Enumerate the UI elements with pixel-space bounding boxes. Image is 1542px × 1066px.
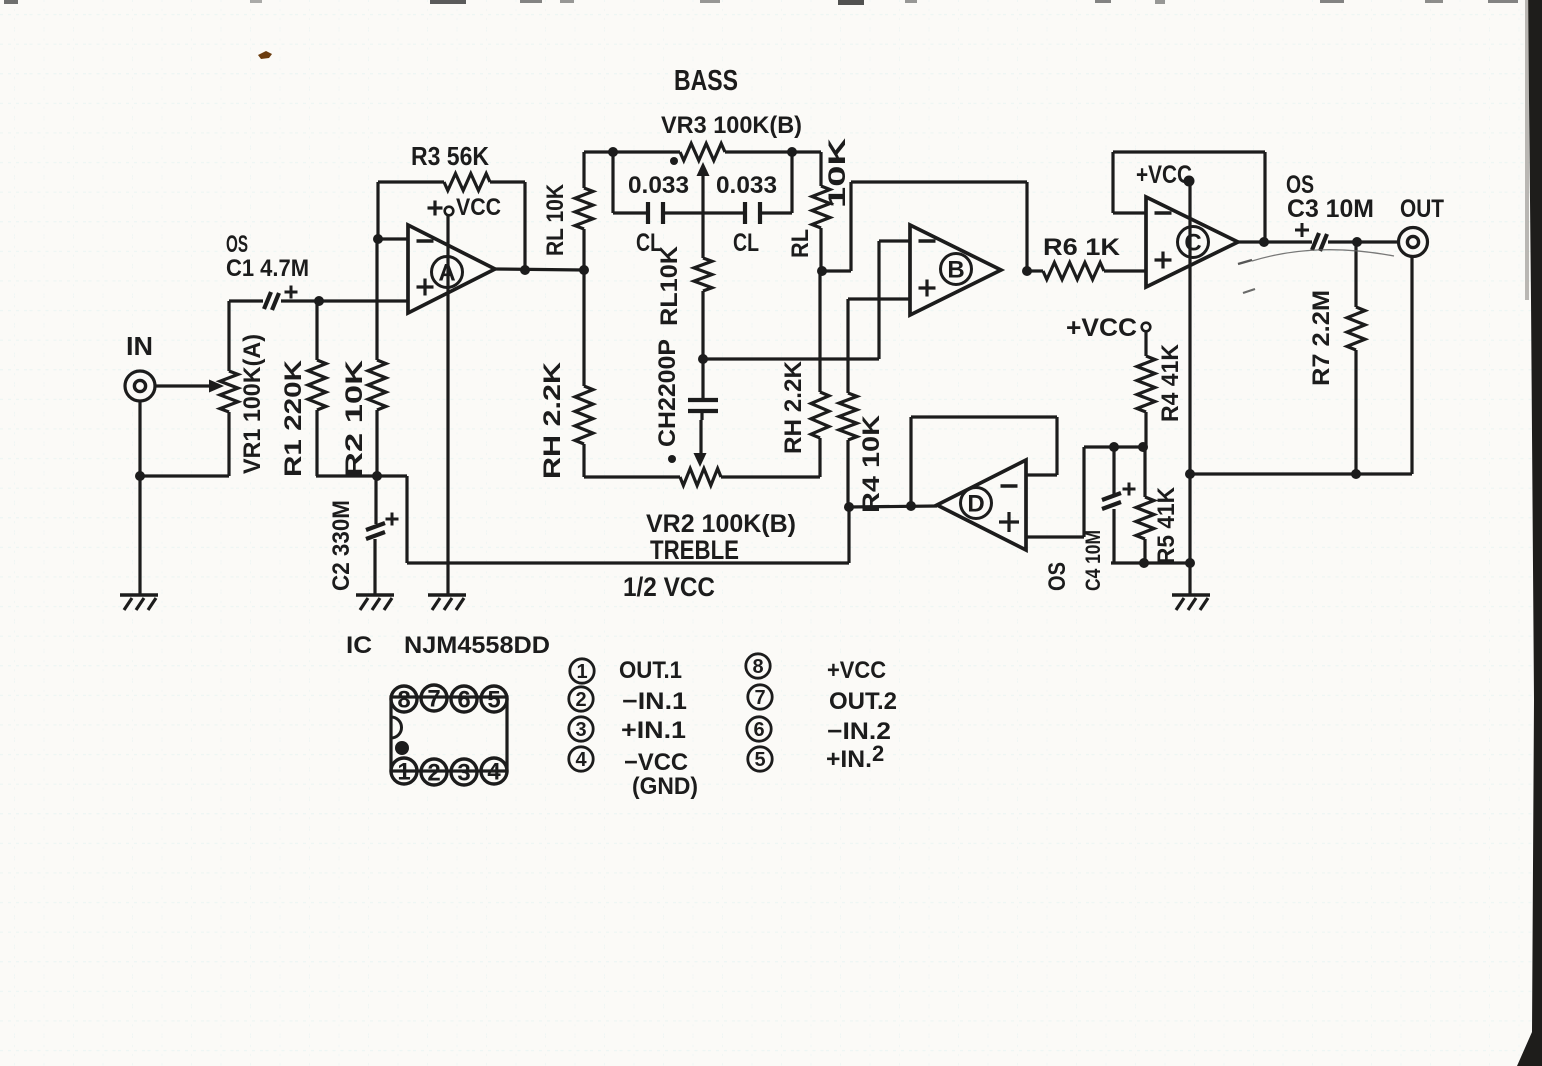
svg-text:+IN.1: +IN.1 bbox=[621, 717, 686, 744]
IC pin-1 marker dot bbox=[395, 741, 409, 755]
label R7 2.2M bbox=[1308, 290, 1335, 386]
wire bass mid rail to op-amp B bbox=[703, 357, 879, 360]
node VR3 left terminal bbox=[608, 147, 618, 157]
svg-text:OUT: OUT bbox=[1400, 195, 1444, 223]
label OUT bbox=[1400, 195, 1444, 223]
node C1/R1 junction bbox=[314, 296, 324, 306]
node op-amp B output bbox=[1022, 266, 1032, 276]
svg-text:3: 3 bbox=[575, 719, 586, 741]
label RH 2.2K right bbox=[780, 360, 807, 454]
wire op-amp D +input bbox=[1026, 447, 1084, 537]
IC pin 3 bbox=[451, 759, 477, 787]
IC notch bbox=[391, 717, 402, 738]
capacitor CL 0.033 left bbox=[613, 202, 703, 224]
scanner edge band right bbox=[1517, 0, 1542, 1066]
node output/RL junction bbox=[579, 265, 589, 275]
label R4 41K bbox=[1157, 343, 1184, 422]
op-amp D bbox=[937, 460, 1026, 550]
IC pin 2 bbox=[421, 759, 447, 787]
node rail/VCC-line junction bbox=[1185, 469, 1195, 479]
svg-text:CH2200P: CH2200P bbox=[654, 339, 681, 447]
svg-text:5: 5 bbox=[487, 687, 500, 714]
wire C4/R5 bottom rail bbox=[1111, 561, 1192, 564]
svg-text:R4 41K: R4 41K bbox=[1157, 343, 1184, 422]
svg-text:C: C bbox=[1184, 230, 1201, 257]
node R5 bottom junction bbox=[1139, 558, 1149, 568]
wire IN to VR1 wiper with arrow bbox=[156, 380, 224, 393]
pin label OUT.2 bbox=[829, 688, 897, 715]
svg-text:10K: 10K bbox=[824, 137, 851, 208]
wire VR3 right drop bbox=[790, 152, 793, 213]
node OUT jack bbox=[1399, 228, 1428, 257]
wire IN jack ground stem bbox=[138, 401, 141, 594]
wire op-amp C feedback box bbox=[1113, 152, 1265, 242]
wire op-amp B feedback loop bbox=[851, 182, 1027, 271]
pin label +IN.2 bbox=[826, 741, 884, 773]
svg-text:2: 2 bbox=[872, 741, 884, 766]
svg-text:R7 2.2M: R7 2.2M bbox=[1308, 290, 1335, 386]
svg-text:NJM4558DD: NJM4558DD bbox=[404, 632, 550, 659]
capacitor C3 10M bbox=[1312, 233, 1327, 251]
svg-text:R1 220K: R1 220K bbox=[280, 359, 307, 477]
label R1 220K bbox=[280, 359, 307, 477]
svg-text:3: 3 bbox=[457, 760, 470, 787]
resistor RL 10K left bbox=[575, 152, 593, 270]
resistor R6 1K bbox=[1027, 263, 1146, 280]
svg-text:RH 2.2K: RH 2.2K bbox=[780, 360, 807, 454]
wire VCC supply line down to ground bbox=[446, 215, 449, 595]
svg-text:7: 7 bbox=[427, 686, 440, 713]
wire output bottom rail bbox=[1190, 472, 1412, 475]
wire half-VCC rail bbox=[407, 476, 849, 563]
svg-text:0.033: 0.033 bbox=[716, 172, 777, 199]
label R3 56K bbox=[411, 141, 489, 171]
wiper arrow of VR3 bbox=[697, 162, 710, 213]
svg-text:+VCC: +VCC bbox=[1136, 161, 1192, 189]
wire half-VCC rail riser to D output bbox=[849, 506, 937, 563]
svg-text:(GND): (GND) bbox=[632, 773, 698, 800]
resistor 10K right bbox=[812, 152, 830, 271]
svg-text:OUT.1: OUT.1 bbox=[619, 657, 682, 684]
wire bass top rail bbox=[584, 150, 821, 153]
svg-text:OUT.2: OUT.2 bbox=[829, 688, 897, 715]
node VR3 right terminal bbox=[787, 147, 797, 157]
svg-text:5: 5 bbox=[754, 749, 765, 771]
stray ink dot above VR2 wiper bbox=[668, 455, 676, 463]
node rail/VCC-line bottom junction bbox=[1185, 558, 1195, 568]
label C1 4.7M bbox=[226, 255, 309, 282]
node R3/R2/-input junction bbox=[373, 234, 383, 244]
stray ink dot above wiper bbox=[670, 157, 678, 165]
node VCC pin blob C bbox=[1184, 176, 1195, 187]
pin label -IN.2 bbox=[827, 718, 891, 745]
svg-text:6: 6 bbox=[457, 687, 470, 714]
wire VR3 left drop bbox=[611, 152, 614, 213]
op-amp B bbox=[910, 225, 1001, 315]
IC pin 6 bbox=[451, 686, 477, 714]
label C3 10M bbox=[1287, 195, 1374, 223]
wire OUT jack stem bbox=[1410, 256, 1413, 474]
IC pin 7 bbox=[421, 685, 447, 713]
svg-text:2: 2 bbox=[427, 760, 440, 787]
label CL left bbox=[636, 229, 662, 257]
label IN bbox=[126, 331, 153, 361]
pin list 1 bbox=[570, 659, 594, 683]
wire VCC pin line down to ground bbox=[1188, 181, 1191, 595]
svg-text:4: 4 bbox=[575, 749, 587, 771]
svg-text:VCC: VCC bbox=[456, 194, 501, 221]
svg-text:8: 8 bbox=[397, 687, 410, 714]
label +VCC (R4 41K) bbox=[1066, 314, 1137, 342]
resistor R5 41K bbox=[1136, 447, 1154, 563]
label R4 10K bbox=[858, 414, 885, 513]
node C3/R7 junction bbox=[1352, 237, 1362, 247]
svg-text:CL: CL bbox=[733, 229, 759, 257]
svg-text:VR1 100K(A): VR1 100K(A) bbox=[239, 334, 266, 474]
svg-text:+VCC: +VCC bbox=[1066, 314, 1137, 342]
wire bottom rail R1-R2 bbox=[316, 474, 407, 477]
capacitor CL 0.033 right bbox=[703, 202, 792, 224]
pin label (GND) bbox=[632, 773, 698, 800]
ground G4 bbox=[1172, 595, 1210, 610]
wire op-amp B +input / R4 10K bbox=[848, 299, 910, 393]
svg-text:0.033: 0.033 bbox=[628, 172, 689, 199]
label RL 10K left bbox=[542, 183, 569, 256]
resistor R7 2.2M bbox=[1347, 242, 1365, 474]
pin label +IN.1 bbox=[621, 717, 686, 744]
svg-text:1/2 VCC: 1/2 VCC bbox=[623, 572, 715, 602]
svg-text:8: 8 bbox=[752, 656, 763, 678]
svg-text:1: 1 bbox=[397, 759, 410, 786]
capacitor C4 10M bbox=[1102, 447, 1121, 563]
node R4 bottom junction bbox=[844, 502, 854, 512]
svg-text:−VCC: −VCC bbox=[624, 749, 688, 776]
op-amp C bbox=[1146, 197, 1238, 287]
IC NJM4558DD package outline bbox=[391, 697, 507, 771]
label C4 10M bbox=[1082, 530, 1105, 591]
wiper arrow of VR2 bbox=[694, 420, 707, 467]
wire op-amp C output bbox=[1238, 240, 1312, 243]
svg-text:IC: IC bbox=[346, 632, 372, 659]
label 0.033 left bbox=[628, 172, 689, 199]
label TREBLE bbox=[650, 535, 739, 565]
resistor R4 10K bbox=[839, 393, 857, 507]
ground G1 bbox=[120, 595, 158, 610]
IC pin 4 bbox=[481, 758, 507, 786]
svg-text:IN: IN bbox=[126, 331, 153, 361]
svg-text:4: 4 bbox=[487, 759, 501, 786]
IC pin 8 bbox=[391, 686, 417, 714]
node junction jack/VR1 bbox=[135, 471, 145, 481]
svg-text:C2 330M: C2 330M bbox=[328, 500, 355, 591]
potentiometer VR2 100K(B) bbox=[584, 469, 818, 486]
svg-text:TREBLE: TREBLE bbox=[650, 535, 739, 565]
svg-text:OS: OS bbox=[226, 231, 248, 258]
polarity + of C2 bbox=[386, 513, 399, 526]
label R2 10K bbox=[341, 359, 368, 477]
resistor RH 2.2K left bbox=[575, 270, 593, 477]
label 10K right bbox=[824, 137, 851, 208]
wire op-amp D feedback loop bbox=[911, 417, 1057, 506]
polarity + of C1 bbox=[285, 286, 298, 299]
svg-text:RH 2.2K: RH 2.2K bbox=[539, 361, 566, 479]
wire op-amp A output bbox=[495, 269, 584, 270]
wire op-amp B -input bbox=[879, 241, 910, 359]
pin list 2 bbox=[569, 687, 593, 711]
svg-text:RL10K: RL10K bbox=[656, 245, 683, 326]
wire node to feedback leg bbox=[822, 269, 851, 272]
capacitor C2 330M bbox=[366, 476, 385, 595]
svg-text:6: 6 bbox=[753, 719, 764, 741]
label VR1 100K(A) bbox=[239, 334, 266, 474]
svg-text:C3 10M: C3 10M bbox=[1287, 195, 1374, 223]
resistor RH 2.2K right bbox=[811, 271, 829, 477]
wire C4/R5 top rail bbox=[1084, 445, 1146, 448]
capacitor C1 4.7M bbox=[229, 292, 319, 310]
svg-text:−IN.1: −IN.1 bbox=[622, 688, 687, 715]
label C2 330M bbox=[328, 500, 355, 591]
resistor R2 10K bbox=[368, 239, 386, 476]
ink speck top-left bbox=[258, 51, 272, 59]
capacitor CH 2200P bbox=[688, 359, 718, 420]
svg-text:C4 10M: C4 10M bbox=[1082, 530, 1105, 591]
IC pin 1 bbox=[391, 758, 417, 786]
node IN jack bbox=[125, 371, 155, 401]
svg-text:7: 7 bbox=[754, 687, 765, 709]
node D output junction bbox=[906, 501, 916, 511]
pin list 4 bbox=[569, 747, 593, 771]
label CH 2200P bbox=[654, 339, 681, 447]
scanner dashes top edge bbox=[4, 0, 1518, 5]
svg-text:RL: RL bbox=[787, 229, 814, 258]
node bass center junction bbox=[698, 354, 708, 364]
label RH 2.2K left bbox=[539, 361, 566, 479]
svg-text:VR3 100K(B): VR3 100K(B) bbox=[661, 112, 802, 139]
label 1/2 VCC bbox=[623, 572, 715, 602]
label OS (C1) bbox=[226, 231, 248, 258]
svg-text:1: 1 bbox=[576, 661, 587, 683]
potentiometer VR1 100K(A) bbox=[220, 301, 238, 476]
pen scratch near output bbox=[1238, 250, 1394, 293]
node C4 top junction bbox=[1109, 442, 1119, 452]
resistor RL 10K center bbox=[694, 213, 712, 359]
label 0.033 right bbox=[716, 172, 777, 199]
svg-text:R2 10K: R2 10K bbox=[341, 359, 368, 477]
ground G3 bbox=[428, 595, 466, 610]
svg-text:OS: OS bbox=[1044, 562, 1071, 591]
node R3/output junction bbox=[520, 265, 530, 275]
svg-text:R6 1K: R6 1K bbox=[1043, 234, 1121, 261]
plus of +VCC (A) bbox=[428, 201, 443, 216]
label IC NJM4558DD bbox=[346, 632, 550, 659]
label R6 1K bbox=[1043, 234, 1121, 261]
resistor R1 220K bbox=[308, 301, 326, 476]
label CL right bbox=[733, 229, 759, 257]
svg-text:BASS: BASS bbox=[674, 65, 738, 97]
svg-text:2: 2 bbox=[575, 689, 586, 711]
svg-text:R4 10K: R4 10K bbox=[858, 414, 885, 513]
pin label +VCC (8) bbox=[827, 657, 886, 684]
svg-text:D: D bbox=[967, 491, 984, 518]
IC pin 5 bbox=[481, 686, 507, 714]
svg-text:R3 56K: R3 56K bbox=[411, 141, 489, 171]
pin label -IN.1 bbox=[622, 688, 687, 715]
pin list 6 bbox=[747, 717, 771, 741]
pin label -VCC bbox=[624, 749, 688, 776]
polarity + of C3 bbox=[1295, 223, 1309, 237]
pin list 8 bbox=[746, 654, 770, 678]
svg-text:B: B bbox=[947, 257, 964, 284]
wire C3 to OUT jack bbox=[1328, 240, 1398, 243]
wire R3 right leg to output bbox=[523, 182, 526, 270]
wire C1 to op-amp A +input bbox=[319, 299, 408, 302]
svg-text:+IN.: +IN. bbox=[826, 746, 872, 773]
pin list 3 bbox=[569, 717, 593, 741]
label R5 41K bbox=[1153, 486, 1180, 564]
pin list 7 bbox=[748, 685, 772, 709]
resistor R3 56K feedback bbox=[378, 174, 525, 191]
wire R3 left leg to -input bbox=[378, 182, 408, 239]
svg-text:VR2 100K(B): VR2 100K(B) bbox=[646, 510, 796, 538]
node R5 top junction bbox=[1138, 442, 1148, 452]
svg-text:RL 10K: RL 10K bbox=[542, 183, 569, 256]
resistor R4 41K bbox=[1137, 331, 1155, 447]
pin list 5 bbox=[748, 747, 772, 771]
label BASS bbox=[674, 65, 738, 97]
node VCC terminal R4 bbox=[1142, 323, 1151, 332]
ground G2 bbox=[356, 595, 394, 610]
label RL right bbox=[787, 229, 814, 258]
wire VR1 bottom to jack stem bbox=[140, 474, 229, 477]
svg-text:C1 4.7M: C1 4.7M bbox=[226, 255, 309, 282]
label VR3 100K(B) bbox=[661, 112, 802, 139]
label OS (C3) bbox=[1286, 171, 1314, 199]
node R2/C2 junction bbox=[372, 471, 382, 481]
potentiometer VR3 100K(B) bbox=[680, 144, 725, 161]
polarity + of C4 bbox=[1123, 483, 1136, 496]
label VCC (A) bbox=[456, 194, 501, 221]
pin label OUT.1 bbox=[619, 657, 682, 684]
svg-text:A: A bbox=[438, 260, 455, 287]
node rail/R7 junction bbox=[1351, 469, 1361, 479]
node VCC terminal A bbox=[445, 207, 454, 216]
node feedback/output junction C bbox=[1259, 237, 1269, 247]
svg-text:R5 41K: R5 41K bbox=[1153, 486, 1180, 564]
label OS (C4) bbox=[1044, 562, 1071, 591]
op-amp A bbox=[408, 225, 495, 313]
label RL10K center bbox=[656, 245, 683, 326]
label +VCC (C) bbox=[1136, 161, 1192, 189]
label VR2 100K(B) bbox=[646, 510, 796, 538]
node 10K/RL junction bbox=[817, 266, 827, 276]
svg-text:+VCC: +VCC bbox=[827, 657, 886, 684]
